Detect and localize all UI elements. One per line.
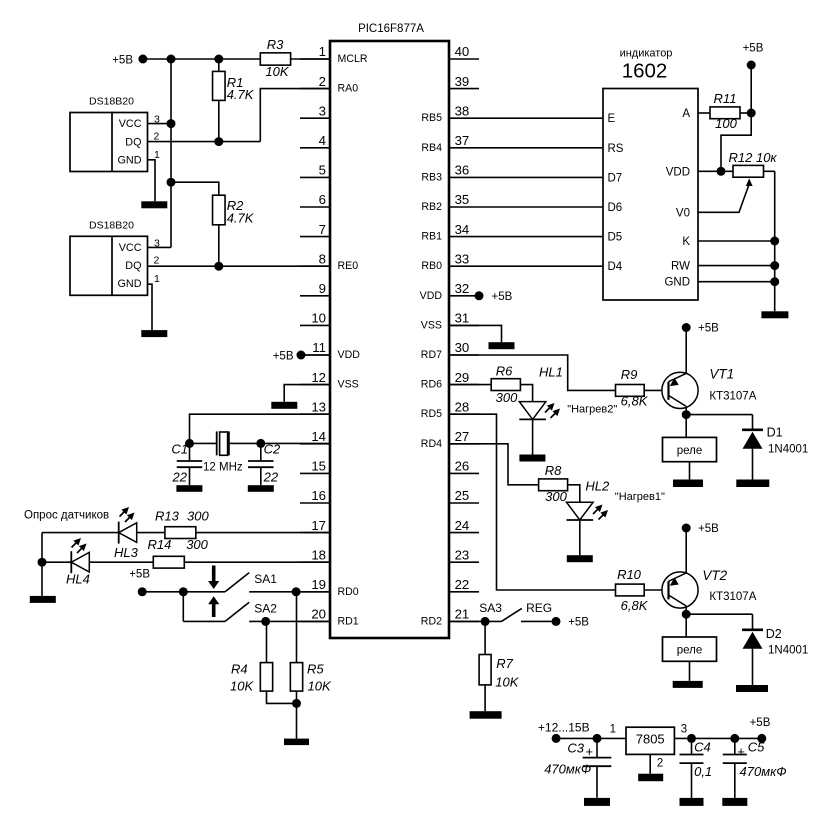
svg-text:10K: 10K [495,674,519,689]
svg-text:2: 2 [154,255,160,267]
svg-text:SA3: SA3 [479,601,502,615]
svg-text:HL4: HL4 [66,572,90,587]
svg-text:23: 23 [455,547,470,562]
svg-text:A: A [682,108,690,120]
svg-text:1N4001: 1N4001 [768,444,808,456]
svg-text:E: E [608,113,616,125]
svg-text:RB4: RB4 [421,142,442,154]
svg-text:32: 32 [455,281,470,296]
svg-text:2: 2 [154,131,160,143]
svg-text:5: 5 [319,163,326,178]
svg-text:6,8K: 6,8K [621,394,649,409]
svg-text:1602: 1602 [622,60,668,83]
svg-text:D7: D7 [608,172,623,184]
svg-text:100: 100 [715,116,737,131]
svg-text:RD4: RD4 [421,438,442,450]
svg-text:VSS: VSS [338,379,359,391]
svg-text:КТ3107А: КТ3107А [709,591,756,603]
svg-text:VDD: VDD [666,166,690,178]
svg-text:VCC: VCC [119,242,142,254]
svg-text:1: 1 [610,724,616,736]
svg-text:1N4001: 1N4001 [768,644,808,656]
svg-text:4.7K: 4.7K [227,87,255,102]
svg-text:+5B: +5B [273,351,294,363]
svg-text:12: 12 [311,370,326,385]
svg-text:R9: R9 [621,367,638,382]
svg-text:4: 4 [319,133,326,148]
svg-text:RB1: RB1 [421,231,442,243]
svg-text:38: 38 [455,103,470,118]
svg-text:RB0: RB0 [421,260,442,272]
svg-text:RD2: RD2 [421,615,442,627]
svg-text:+12...15B: +12...15B [538,721,590,735]
svg-text:+5B: +5B [112,55,133,67]
svg-text:35: 35 [455,192,470,207]
svg-text:R12 10к: R12 10к [729,150,778,165]
svg-text:VT1: VT1 [709,367,734,382]
svg-text:19: 19 [311,577,326,592]
svg-text:GND: GND [664,277,690,289]
svg-text:RD0: RD0 [338,586,359,598]
svg-text:27: 27 [455,429,470,444]
svg-text:C5: C5 [748,740,765,755]
svg-text:9: 9 [319,281,326,296]
svg-text:2: 2 [319,74,326,89]
svg-text:+5B: +5B [129,569,150,581]
svg-text:C4: C4 [694,740,711,755]
svg-text:VSS: VSS [421,319,442,331]
svg-text:RB3: RB3 [421,171,442,183]
svg-text:18: 18 [311,547,326,562]
svg-text:26: 26 [455,459,470,474]
svg-text:8: 8 [319,251,326,266]
svg-text:SA1: SA1 [254,572,277,586]
svg-text:12 MHz: 12 MHz [203,462,243,474]
svg-text:RD1: RD1 [338,615,359,627]
svg-text:36: 36 [455,163,470,178]
svg-text:21: 21 [455,607,470,622]
svg-text:D5: D5 [608,232,623,244]
svg-text:0,1: 0,1 [694,764,712,779]
svg-text:+: + [737,744,745,759]
svg-text:RD7: RD7 [421,349,442,361]
svg-text:25: 25 [455,488,470,503]
svg-text:300: 300 [186,537,208,552]
svg-text:+5B: +5B [698,323,719,335]
svg-text:DS18B20: DS18B20 [89,219,134,231]
svg-text:33: 33 [455,251,470,266]
svg-text:R10: R10 [617,567,642,582]
svg-text:RB2: RB2 [421,201,442,213]
svg-text:SA2: SA2 [254,602,277,616]
svg-text:D6: D6 [608,202,623,214]
svg-text:+5B: +5B [743,43,764,55]
svg-text:RA0: RA0 [338,83,359,95]
svg-text:VT2: VT2 [702,568,727,583]
svg-text:13: 13 [311,399,326,414]
svg-text:29: 29 [455,370,470,385]
svg-text:40: 40 [455,44,470,59]
svg-text:MCLR: MCLR [338,53,368,65]
svg-text:10K: 10K [265,64,289,79]
svg-text:V0: V0 [676,207,690,219]
svg-text:D2: D2 [766,627,782,641]
svg-text:39: 39 [455,74,470,89]
svg-text:22: 22 [455,577,470,592]
svg-text:RE0: RE0 [338,260,359,272]
svg-text:RB5: RB5 [421,112,442,124]
svg-text:470мкФ: 470мкФ [740,764,787,779]
svg-text:HL3: HL3 [114,545,139,560]
svg-text:DQ: DQ [125,136,141,148]
svg-text:300: 300 [545,489,567,504]
svg-text:31: 31 [455,311,470,326]
svg-text:16: 16 [311,488,326,503]
svg-text:20: 20 [311,607,326,622]
svg-text:6: 6 [319,192,326,207]
svg-text:C1: C1 [171,442,188,457]
svg-text:10: 10 [311,311,326,326]
svg-text:R13: R13 [155,509,180,524]
svg-text:1: 1 [319,44,326,59]
svg-text:VDD: VDD [338,349,361,361]
svg-text:+5B: +5B [568,616,589,628]
svg-text:7805: 7805 [636,732,665,747]
svg-text:C2: C2 [264,442,281,457]
svg-text:реле: реле [677,644,703,656]
svg-text:RD5: RD5 [421,408,442,420]
svg-text:Опрос датчиков: Опрос датчиков [24,510,109,522]
svg-text:10K: 10K [308,679,332,694]
svg-text:D4: D4 [608,261,623,273]
svg-text:3: 3 [154,237,160,249]
svg-text:RS: RS [608,143,624,155]
svg-text:28: 28 [455,399,470,414]
svg-text:REG: REG [526,601,552,615]
svg-text:17: 17 [311,518,326,533]
svg-text:КТ3107А: КТ3107А [709,391,756,403]
svg-text:30: 30 [455,340,470,355]
svg-text:VDD: VDD [420,290,443,302]
svg-text:+5B: +5B [750,717,771,729]
svg-text:R11: R11 [714,91,737,106]
svg-text:15: 15 [311,459,326,474]
svg-text:R7: R7 [496,656,513,671]
svg-text:GND: GND [118,154,142,166]
svg-text:K: K [682,236,690,248]
svg-text:470мкФ: 470мкФ [544,762,591,777]
svg-text:C3: C3 [567,741,584,756]
svg-text:R3: R3 [267,37,284,52]
svg-text:3: 3 [154,114,160,126]
svg-text:6,8K: 6,8K [621,598,649,613]
svg-text:14: 14 [311,429,326,444]
svg-text:37: 37 [455,133,470,148]
svg-text:DS18B20: DS18B20 [89,96,134,108]
svg-text:10K: 10K [230,679,254,694]
svg-text:300: 300 [187,509,209,524]
svg-text:22: 22 [172,470,188,485]
svg-text:24: 24 [455,518,470,533]
svg-text:HL2: HL2 [585,479,610,494]
svg-text:22: 22 [263,470,279,485]
svg-text:+5B: +5B [698,523,719,535]
svg-text:RW: RW [671,261,690,273]
svg-text:D1: D1 [767,426,783,440]
svg-text:RD6: RD6 [421,379,442,391]
svg-text:VCC: VCC [119,118,142,130]
svg-text:R14: R14 [148,537,172,552]
svg-text:R5: R5 [307,662,324,677]
svg-text:реле: реле [677,445,703,457]
svg-text:R4: R4 [231,662,248,677]
svg-text:DQ: DQ [125,260,141,272]
svg-text:11: 11 [312,340,326,355]
svg-text:3: 3 [319,103,326,118]
svg-text:"Нагрев2": "Нагрев2" [567,404,617,416]
svg-text:R6: R6 [496,364,513,379]
svg-text:"Нагрев1": "Нагрев1" [615,491,665,503]
svg-text:3: 3 [681,724,687,736]
svg-text:HL1: HL1 [539,365,563,380]
svg-text:GND: GND [118,278,142,290]
svg-text:300: 300 [496,390,518,405]
svg-text:+: + [586,744,594,759]
svg-text:индикатор: индикатор [620,48,673,60]
svg-text:7: 7 [319,222,326,237]
svg-text:1: 1 [154,273,160,285]
svg-text:4.7K: 4.7K [227,211,255,226]
svg-text:R8: R8 [545,463,562,478]
svg-text:34: 34 [455,222,470,237]
svg-text:PIC16F877A: PIC16F877A [358,23,424,35]
svg-text:2: 2 [657,758,663,770]
svg-text:+5B: +5B [492,291,513,303]
